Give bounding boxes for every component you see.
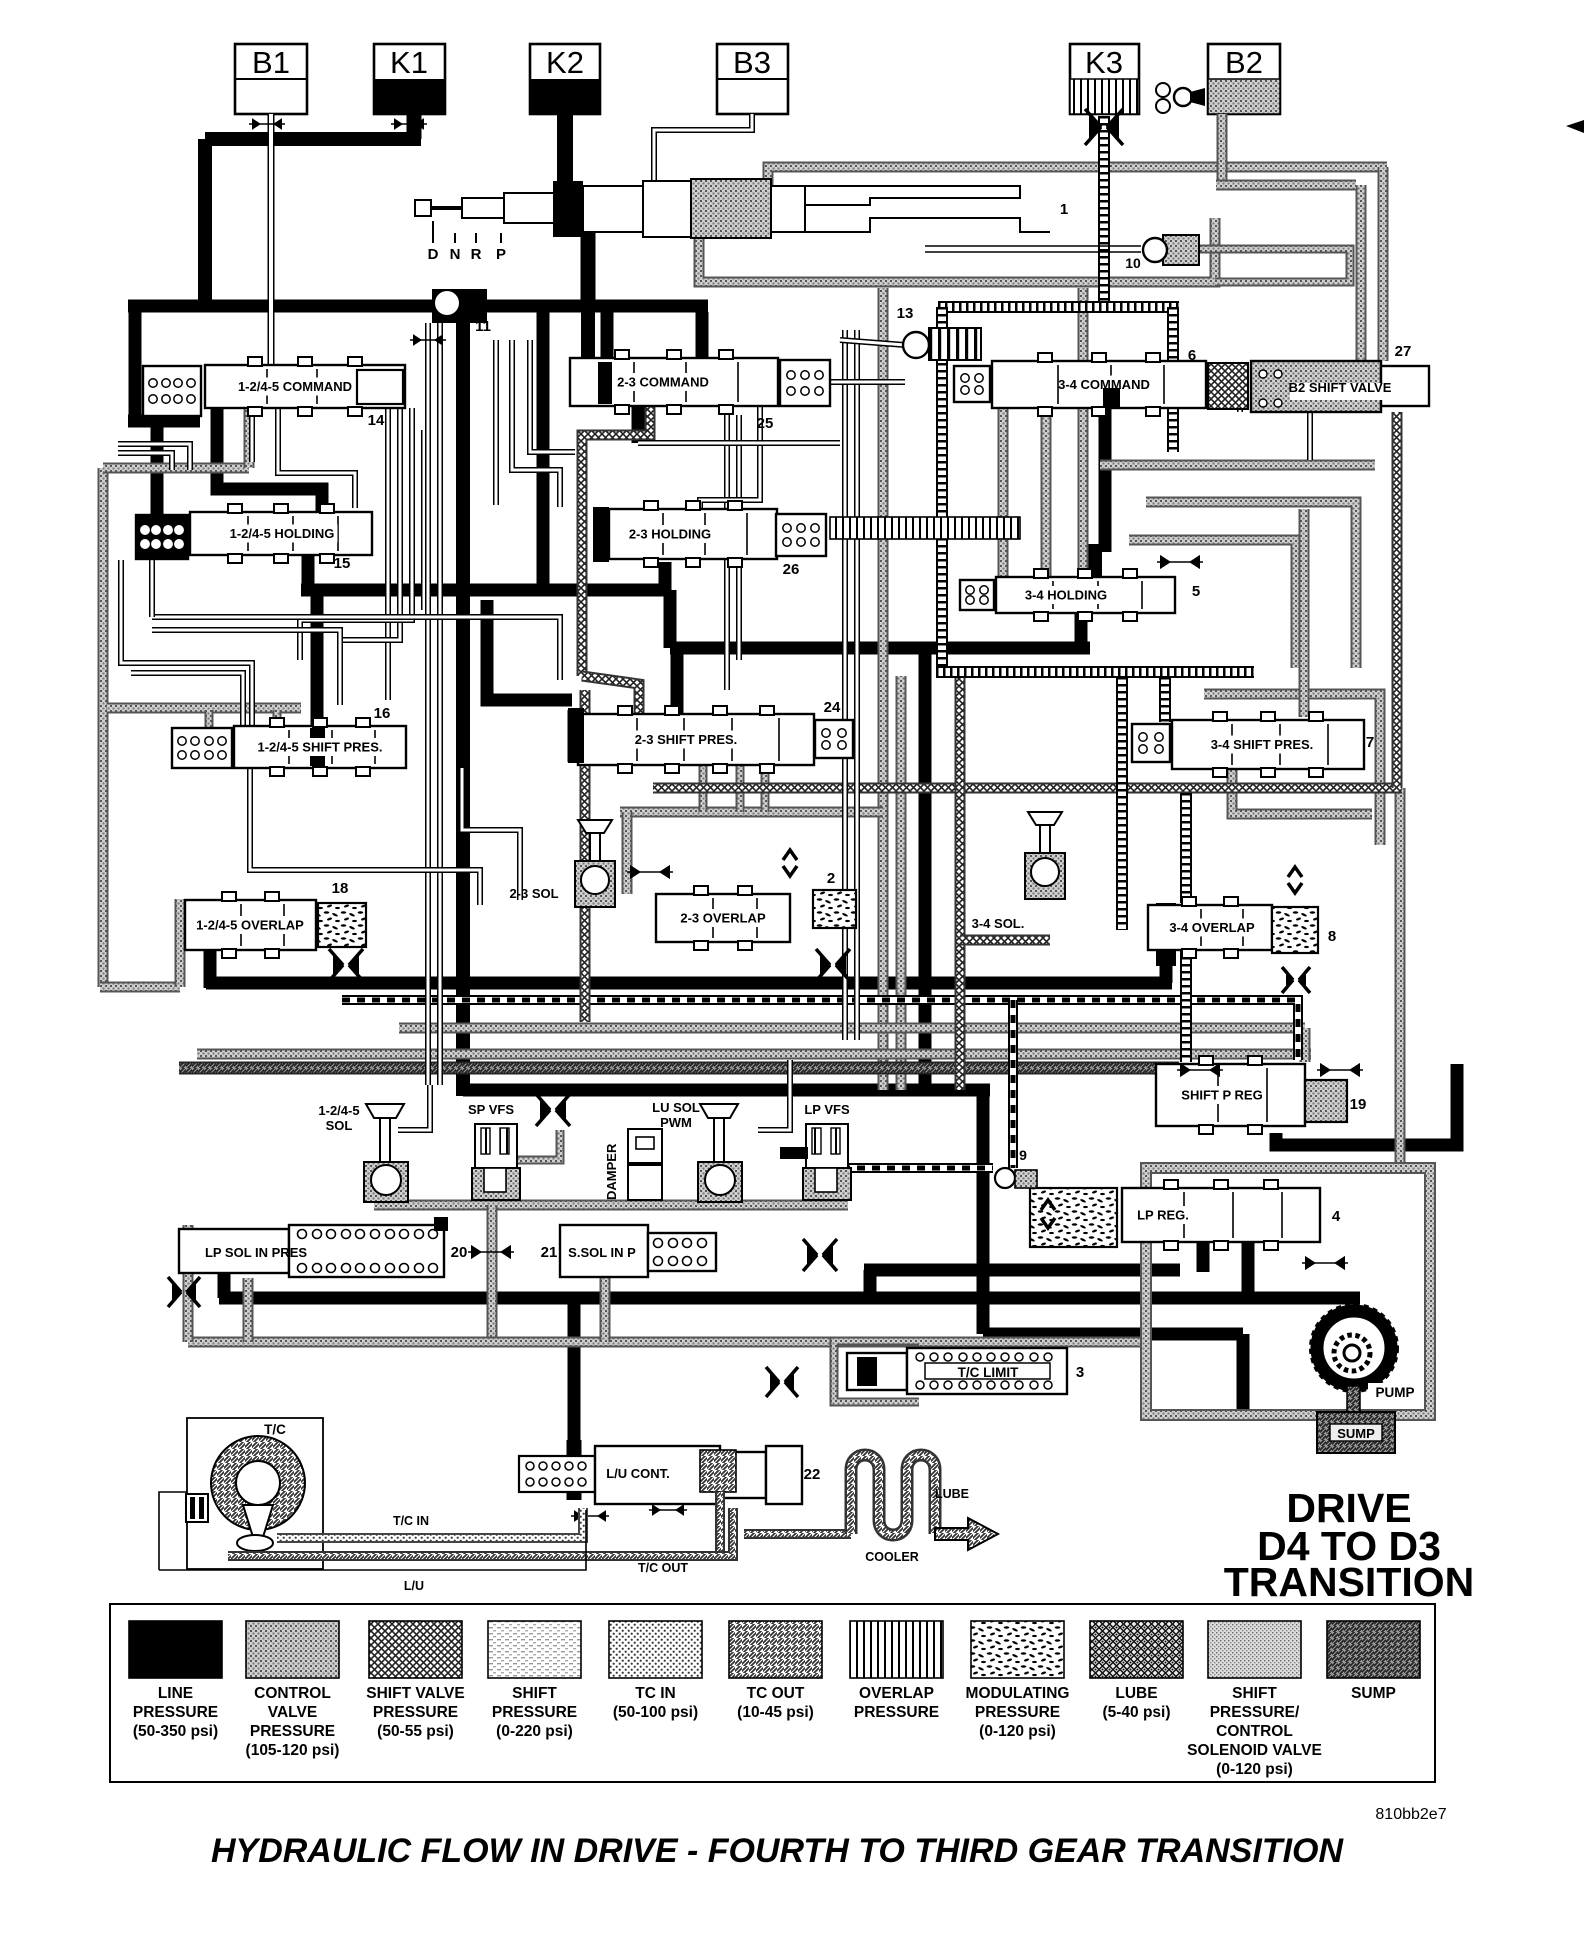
pipe y708 left horizontal: [107, 703, 301, 714]
solenoid block for 2-3 command: [780, 360, 830, 406]
valve 9 ball: [995, 1168, 1037, 1188]
pipe y540 staircase: [1129, 540, 1296, 668]
valve 2 2-3 overlap: [656, 886, 790, 950]
damper symbol: [628, 1129, 662, 1200]
valve 16 interior line-pressure cap: [310, 728, 325, 766]
valve 16 label overlay: [250, 738, 391, 756]
wire K1 left riser: [198, 139, 212, 306]
thin left column a: [149, 557, 155, 617]
thin bundle below 1-2/4-5 command a: [249, 408, 255, 462]
thin bundle 16 area: [250, 768, 480, 905]
pipe sump-return y1068: [179, 1062, 1179, 1075]
valve 13 ball and spring: [903, 328, 981, 360]
solenoid block for 2-3 shift pres: [815, 720, 853, 758]
pipe to cooler: [744, 1529, 851, 1539]
pipe 3-4 command to holding b: [1041, 408, 1052, 577]
wire lp vfs feed: [780, 1147, 808, 1159]
pipe stub 24 c: [761, 765, 770, 812]
arrow right of 3-4 holding: [1157, 555, 1203, 569]
svg-text:6: 6: [1188, 347, 1196, 364]
svg-text:OVERLAP: OVERLAP: [859, 1685, 934, 1702]
arrow A above 2-3 overlap: [783, 866, 797, 876]
svg-text:(0-120 psi): (0-120 psi): [1216, 1761, 1293, 1778]
svg-text:2: 2: [827, 870, 835, 887]
node 11 feed vertical: [456, 312, 470, 1096]
svg-text:3-4 SHIFT PRES.: 3-4 SHIFT PRES.: [1211, 737, 1314, 752]
thin 3-4 command right: [1206, 383, 1240, 412]
pipe overlap left riser: [175, 899, 186, 987]
svg-text:PRESSURE: PRESSURE: [373, 1704, 458, 1721]
tc out swatch: [729, 1621, 822, 1678]
arrow below K1: [391, 118, 427, 130]
wire drop x543: [537, 306, 550, 590]
valve 24 2-3 shift pres: [578, 706, 814, 773]
solenoid LP VFS symbol: [803, 1124, 851, 1200]
arrow A below valve 9: [1041, 1218, 1055, 1228]
arrow below lu cont b: [649, 1504, 687, 1516]
svg-text:D: D: [428, 246, 439, 263]
pipe overlap x1165 stub: [1159, 677, 1171, 722]
node 11 junction: [432, 289, 487, 323]
pipe B2 drop: [1217, 114, 1228, 185]
arrow manual valve: [410, 334, 446, 346]
valve 18 1-2/4-5 overlap: [185, 892, 316, 958]
svg-text:SOLENOID VALVE: SOLENOID VALVE: [1187, 1742, 1322, 1759]
solenoid block for 1-2/4-5 command: [143, 366, 201, 416]
arrow pair right of 20: [468, 1245, 514, 1259]
svg-text:(105-120 psi): (105-120 psi): [246, 1742, 340, 1759]
pipe overlap K3 drop: [1098, 116, 1110, 307]
thin bundle x845: [842, 330, 848, 1040]
svg-text:25: 25: [757, 415, 774, 432]
svg-text:B2: B2: [1225, 45, 1263, 80]
modulating block of valve 2: [813, 890, 856, 928]
spring coil between 2-3 holding and 3-4 area: [830, 517, 1020, 539]
thin bundle x857: [854, 330, 860, 1040]
arrow near right edge top: [1566, 120, 1584, 133]
svg-text:2-3 OVERLAP: 2-3 OVERLAP: [680, 911, 766, 926]
svg-text:SHIFT P REG: SHIFT P REG: [1181, 1088, 1262, 1103]
svg-text:(50-350 psi): (50-350 psi): [133, 1723, 218, 1740]
wire 2-3 holding bottom drop: [659, 562, 672, 596]
svg-text:SOL: SOL: [326, 1118, 353, 1133]
thin horizontal y617: [152, 617, 560, 680]
clutch box B1: [235, 44, 307, 114]
pipe y502 staircase: [1146, 502, 1356, 668]
pipe stub into 16 a: [205, 710, 214, 728]
pipe shift-valve elbow to 2-3 shift pres: [582, 676, 639, 714]
svg-text:LUBE: LUBE: [1115, 1685, 1157, 1702]
pipe y1028 horizontal: [399, 1023, 1305, 1034]
valve 3 t/c limit: [847, 1348, 1067, 1394]
valve 4 lp reg: [1122, 1180, 1320, 1250]
pipe stub 24 b: [736, 765, 745, 812]
svg-text:16: 16: [374, 705, 391, 722]
svg-text:TRANSITION: TRANSITION: [1224, 1559, 1475, 1605]
thin center pair b: [437, 323, 443, 1085]
svg-text:L/U: L/U: [404, 1579, 424, 1593]
lube swatch: [1090, 1621, 1183, 1678]
valve 15 1-2/4-5 holding: [190, 504, 372, 563]
wire overlap bottom long: [206, 977, 1172, 990]
pipe overlap y672: [936, 666, 1254, 678]
svg-text:3-4 OVERLAP: 3-4 OVERLAP: [1169, 920, 1255, 935]
svg-text:5: 5: [1192, 583, 1200, 600]
arrow right of s.sol: [803, 1239, 837, 1271]
pipe y812 horizontal: [620, 807, 883, 818]
svg-text:2-3 HOLDING: 2-3 HOLDING: [629, 527, 711, 542]
pipe 3-4 command to holding a: [998, 408, 1009, 577]
svg-text:P: P: [496, 246, 506, 263]
pipe B2 shift valve left riser: [1356, 185, 1367, 361]
pipe modulating y1000: [342, 1000, 1298, 1060]
svg-text:(50-100 psi): (50-100 psi): [613, 1704, 698, 1721]
pipe bottom long y1342: [188, 1337, 1146, 1348]
pipe x901 vertical: [896, 676, 907, 1090]
modulating pressure swatch: [971, 1621, 1064, 1678]
svg-text:SUMP: SUMP: [1337, 1426, 1375, 1441]
svg-text:PUMP: PUMP: [1375, 1385, 1414, 1400]
pipe solenoid base rail: [374, 1200, 848, 1211]
line pressure swatch: [129, 1621, 222, 1678]
arrow below lu cont a: [571, 1510, 609, 1522]
solenoid block for 3-4 holding: [960, 580, 994, 610]
pipe modulating into lp reg: [1008, 1000, 1018, 1168]
wire staircase y590: [301, 584, 670, 597]
svg-text:1-2/4-5: 1-2/4-5: [318, 1103, 359, 1118]
svg-text:B2 SHIFT VALVE: B2 SHIFT VALVE: [1289, 380, 1392, 395]
pipe shift-valve x585 lower: [580, 690, 591, 1022]
thin l/u left: [159, 1492, 187, 1570]
pipe t/c limit frame: [834, 1341, 919, 1402]
arrow left of t/c limit: [766, 1367, 798, 1397]
cooler coil: [851, 1455, 935, 1535]
svg-text:TC IN: TC IN: [635, 1685, 675, 1702]
svg-text:N: N: [450, 246, 461, 263]
wire K2 drop: [557, 114, 573, 186]
thin k3 right bundle: [1307, 412, 1313, 460]
pipe 3-4 loop a: [1204, 694, 1380, 845]
arrow below valve 18: [329, 949, 363, 981]
valve 16 1-2/4-5 shift pres: [234, 718, 406, 776]
wire B1 left riser: [129, 300, 142, 421]
lu cont hatch section: [700, 1450, 736, 1492]
svg-text:(10-45 psi): (10-45 psi): [737, 1704, 814, 1721]
svg-text:20: 20: [451, 1244, 468, 1261]
wire 1-2/4-5 holding drop: [302, 553, 315, 590]
svg-text:(0-220 psi): (0-220 psi): [496, 1723, 573, 1740]
solenoid 1-2/4-5 SOL symbol: [364, 1104, 408, 1202]
svg-text:18: 18: [332, 880, 349, 897]
svg-text:14: 14: [368, 412, 385, 429]
pump to sump stub: [1347, 1386, 1360, 1414]
svg-text:13: 13: [897, 305, 914, 322]
arrow A above 3-4 overlap: [1288, 883, 1302, 893]
svg-text:1: 1: [1060, 201, 1068, 218]
valve 25 2-3 command: [570, 350, 778, 414]
pipe B2 shift valve drop: [1392, 412, 1403, 788]
svg-text:19: 19: [1350, 1096, 1367, 1113]
arrow V above 2-3 overlap: [783, 850, 797, 860]
valve 24 interior line-pressure cap: [568, 708, 584, 763]
wire drop x702 to 2-3 command: [696, 312, 709, 358]
pipe overlap spring horizontal: [938, 301, 1179, 313]
valve 14 1-2/4-5 command: [205, 357, 405, 416]
pipe stub x605 down: [600, 1278, 611, 1342]
wire K2 drop to lu cont: [567, 1440, 582, 1500]
svg-text:8: 8: [1328, 928, 1336, 945]
valve 5 3-4 holding: [996, 569, 1175, 621]
clutch box K3: [1070, 44, 1139, 114]
solenoid block for 3-4 shift pres: [1132, 724, 1170, 762]
pipe stub x248 down: [243, 1278, 254, 1342]
thin 1-2/4-5 sol feed: [398, 1085, 430, 1130]
wire line pressure main horizontal: [128, 300, 708, 313]
pipe left bottom y987: [100, 982, 180, 993]
thin left pair elbow2: [131, 673, 243, 726]
svg-text:1-2/4-5 OVERLAP: 1-2/4-5 OVERLAP: [196, 918, 304, 933]
thin bundle below command right b: [340, 408, 400, 705]
svg-text:2-3 SOL: 2-3 SOL: [509, 886, 558, 901]
pipe overlap x1186 drop lower: [1180, 950, 1192, 1062]
svg-text:K3: K3: [1085, 45, 1123, 80]
wire 3-4 overlap riser: [1160, 948, 1173, 983]
svg-text:PWM: PWM: [660, 1115, 692, 1130]
arrow left of 2-3 overlap: [627, 865, 673, 879]
wire shift p reg black link: [1276, 1064, 1457, 1145]
svg-text:3-4 SOL.: 3-4 SOL.: [972, 916, 1025, 931]
clutch box K1: [374, 44, 445, 114]
pipe 3-4 loop b: [1232, 769, 1372, 814]
thin left elbow a: [118, 444, 190, 470]
3-4 holding left cap block: [1080, 544, 1102, 576]
svg-text:T/C IN: T/C IN: [393, 1514, 429, 1528]
svg-text:SHIFT: SHIFT: [1232, 1685, 1277, 1702]
solenoid LU SOL PWM symbol: [698, 1104, 742, 1202]
svg-text:CONTROL: CONTROL: [1216, 1723, 1293, 1740]
thin bundle below command right d: [421, 430, 427, 610]
shift pressure swatch: [488, 1621, 581, 1678]
pipe y1054 to shift p reg: [197, 1049, 1311, 1060]
wire to 1-2/4-5 command left: [128, 415, 200, 428]
svg-text:810bb2e7: 810bb2e7: [1375, 1806, 1446, 1823]
clutch box B2: [1208, 44, 1280, 114]
pipe x1305 to shift p reg: [1300, 1028, 1311, 1062]
wire x677 into 2-3 shift pres: [671, 648, 684, 763]
svg-text:SHIFT VALVE: SHIFT VALVE: [366, 1685, 464, 1702]
solenoid block for 1-2/4-5 shift pres: [172, 728, 232, 768]
svg-text:PRESSURE: PRESSURE: [492, 1704, 577, 1721]
wire K2 below valve: [581, 232, 596, 306]
check-ball widget right of K3: [1156, 83, 1205, 113]
svg-text:21: 21: [541, 1244, 558, 1261]
svg-text:LP SOL IN PRES: LP SOL IN PRES: [205, 1245, 307, 1260]
pipe lu cont to tc out: [715, 1492, 725, 1552]
svg-text:26: 26: [783, 561, 800, 578]
svg-text:PRESSURE: PRESSURE: [854, 1704, 939, 1721]
pipe t/c out: [228, 1508, 733, 1556]
thin bundle x739: [736, 415, 742, 660]
arrow below B1: [249, 118, 285, 130]
thin bundle below 1-2/4-5 command b: [278, 408, 355, 508]
wire y700 to 2-3 shift pres: [487, 600, 572, 700]
pipe shift-valve elbow y940: [960, 935, 1050, 946]
thin 13 link: [840, 340, 905, 345]
svg-text:3: 3: [1076, 1364, 1084, 1381]
thin l/u line: [159, 1510, 586, 1570]
pipe shift-valve 2-3 command down: [582, 406, 650, 676]
wire lp reg bottom stub b: [1242, 1242, 1255, 1300]
valve 14 right plug: [357, 370, 403, 404]
pipe left dotted vertical x103: [98, 468, 109, 987]
thin bundle below command right a: [385, 408, 391, 700]
thin bundle below 2-3 command: [700, 406, 760, 560]
wire 2-3 shift pres left cap: [568, 710, 583, 762]
svg-text:2-3 COMMAND: 2-3 COMMAND: [617, 375, 709, 390]
wire K1 horizontal: [205, 132, 421, 146]
solenoid block for 1-2/4-5 holding: [136, 515, 188, 559]
svg-text:SHIFT: SHIFT: [512, 1685, 557, 1702]
svg-text:L/U CONT.: L/U CONT.: [606, 1466, 670, 1481]
pipe B2 shift valve right riser: [1378, 167, 1389, 361]
svg-text:3-4 HOLDING: 3-4 HOLDING: [1025, 588, 1107, 603]
wire 3-4 command bottom black: [1099, 408, 1112, 552]
label DRIVE D4 TO D3 TRANSITION: [1224, 1485, 1475, 1605]
valve 20 lp sol in pres: [179, 1225, 444, 1277]
svg-text:T/C OUT: T/C OUT: [638, 1561, 688, 1575]
wire 1-2/4-5 overlap drop: [204, 947, 217, 988]
thin horizontal y630: [152, 630, 340, 700]
wire lp sol left riser: [218, 1270, 231, 1298]
pump enclosure pipe ring: [1146, 1168, 1430, 1415]
pipe left frame x188: [183, 1225, 194, 1342]
pipe x1304 vertical: [1299, 509, 1310, 717]
svg-text:1-2/4-5 COMMAND: 1-2/4-5 COMMAND: [238, 379, 352, 394]
thin bundle 16 area b: [462, 768, 520, 900]
thin 25 right link: [830, 379, 905, 385]
pump: [1312, 1306, 1396, 1390]
svg-text:PRESSURE: PRESSURE: [975, 1704, 1060, 1721]
pipe x492 drop: [487, 1205, 498, 1345]
valve 25 interior line-pressure cap: [598, 362, 612, 404]
arrow pair near shift p reg left: [1177, 1063, 1223, 1077]
control valve pressure swatch: [246, 1621, 339, 1678]
pipe y465 horizontal: [1100, 460, 1375, 471]
svg-text:PRESSURE: PRESSURE: [250, 1723, 335, 1740]
wire y1090 horizontal: [463, 1084, 990, 1097]
svg-text:K2: K2: [546, 45, 584, 80]
solenoid 2-3 SOL symbol: [575, 820, 615, 907]
valve 26 2-3 holding: [609, 501, 777, 567]
svg-text:(5-40 psi): (5-40 psi): [1102, 1704, 1170, 1721]
svg-text:HYDRAULIC FLOW IN DRIVE - FOUR: HYDRAULIC FLOW IN DRIVE - FOURTH TO THIR…: [211, 1832, 1344, 1870]
valve 19 dotted block: [1305, 1080, 1347, 1122]
wire x574 to lu cont: [568, 1298, 581, 1460]
svg-text:K1: K1: [390, 45, 428, 80]
svg-text:24: 24: [824, 699, 841, 716]
pipe control top long y167: [768, 167, 1387, 186]
arrow pair left edge: [168, 1277, 200, 1307]
wire lp reg out y1270: [864, 1264, 1180, 1277]
svg-text:S.SOL IN P: S.SOL IN P: [568, 1245, 636, 1260]
svg-text:PRESSURE/: PRESSURE/: [1210, 1704, 1300, 1721]
svg-text:CONTROL: CONTROL: [254, 1685, 331, 1702]
thin B1 drop pair: [268, 114, 275, 365]
wire staircase x670: [664, 590, 677, 648]
clutch box B3: [717, 44, 788, 114]
wire x983 down: [977, 1090, 990, 1334]
arrow below K3: [1085, 109, 1123, 145]
svg-text:1-2/4-5 HOLDING: 1-2/4-5 HOLDING: [230, 526, 335, 541]
overlap pressure swatch: [850, 1621, 943, 1678]
modulating block of valve 8: [1272, 907, 1318, 953]
valve 19 shift p reg: [1156, 1056, 1305, 1134]
pipe y468 left horizontal: [103, 463, 249, 474]
svg-text:15: 15: [334, 555, 351, 572]
label PUMP: [1368, 1383, 1422, 1400]
thin center pair a: [425, 323, 431, 1085]
wire 2-3 command bottom stub: [632, 406, 645, 443]
svg-text:SUMP: SUMP: [1351, 1685, 1396, 1702]
svg-text:COOLER: COOLER: [865, 1550, 918, 1564]
manual valve position ticks D N R P: [433, 221, 501, 243]
legend box: [110, 1604, 1435, 1782]
wire y1334 to pump: [983, 1328, 1243, 1341]
pipe manual valve bottom frame: [699, 218, 1215, 282]
black stub above lp sol: [434, 1217, 448, 1231]
thin bundle 14 right b: [530, 340, 575, 452]
modulating block of valve 18: [318, 903, 366, 947]
svg-text:9: 9: [1019, 1147, 1027, 1163]
svg-text:T/C LIMIT: T/C LIMIT: [958, 1365, 1019, 1380]
arrow V above 3-4 overlap: [1288, 867, 1302, 877]
torque converter assembly: [186, 1418, 323, 1569]
svg-text:2-3 SHIFT PRES.: 2-3 SHIFT PRES.: [635, 732, 738, 747]
svg-text:1-2/4-5 SHIFT PRES.: 1-2/4-5 SHIFT PRES.: [258, 740, 383, 755]
manual valve to valve 10 rod: [925, 246, 1141, 252]
thin lu sol feed: [758, 1060, 790, 1130]
svg-text:B1: B1: [252, 45, 290, 80]
arrow V below valve 9: [1041, 1200, 1055, 1210]
svg-text:DAMPER: DAMPER: [604, 1143, 619, 1200]
pipe valve10 loop: [1180, 249, 1350, 282]
manual selector valve 1 body: [415, 179, 1050, 238]
svg-text:7: 7: [1366, 734, 1374, 751]
wire 3-4 holding drop: [1075, 611, 1088, 648]
solenoid 3-4 SOL symbol: [1025, 812, 1065, 899]
sump block: [1317, 1412, 1395, 1453]
svg-text:SP VFS: SP VFS: [468, 1102, 514, 1117]
wire solenoid block drop x157: [151, 415, 164, 515]
valve 10 ball: [1143, 235, 1199, 265]
svg-text:22: 22: [804, 1466, 821, 1483]
pipe overlap x942 vertical: [936, 307, 948, 676]
thin bundle 14 right c: [493, 340, 499, 505]
pipe control y185: [1216, 180, 1356, 191]
wire K2 to 2-3 command: [581, 306, 595, 358]
wire x925 long vertical: [919, 644, 932, 1090]
pipe x627 down to 2-3 overlap: [622, 812, 633, 894]
valve 8 3-4 overlap: [1148, 897, 1272, 958]
arrow below 2-3 overlap block: [816, 949, 850, 981]
sump swatch: [1327, 1621, 1420, 1678]
svg-text:B3: B3: [733, 45, 771, 80]
pipe shift-valve y788: [653, 783, 1402, 794]
arrow pair near shift p reg right: [1317, 1063, 1363, 1077]
arrow below 3-4 overlap: [1282, 967, 1310, 993]
pipe overlap x1173 vertical: [1167, 307, 1179, 452]
svg-text:LP REG.: LP REG.: [1137, 1208, 1189, 1223]
